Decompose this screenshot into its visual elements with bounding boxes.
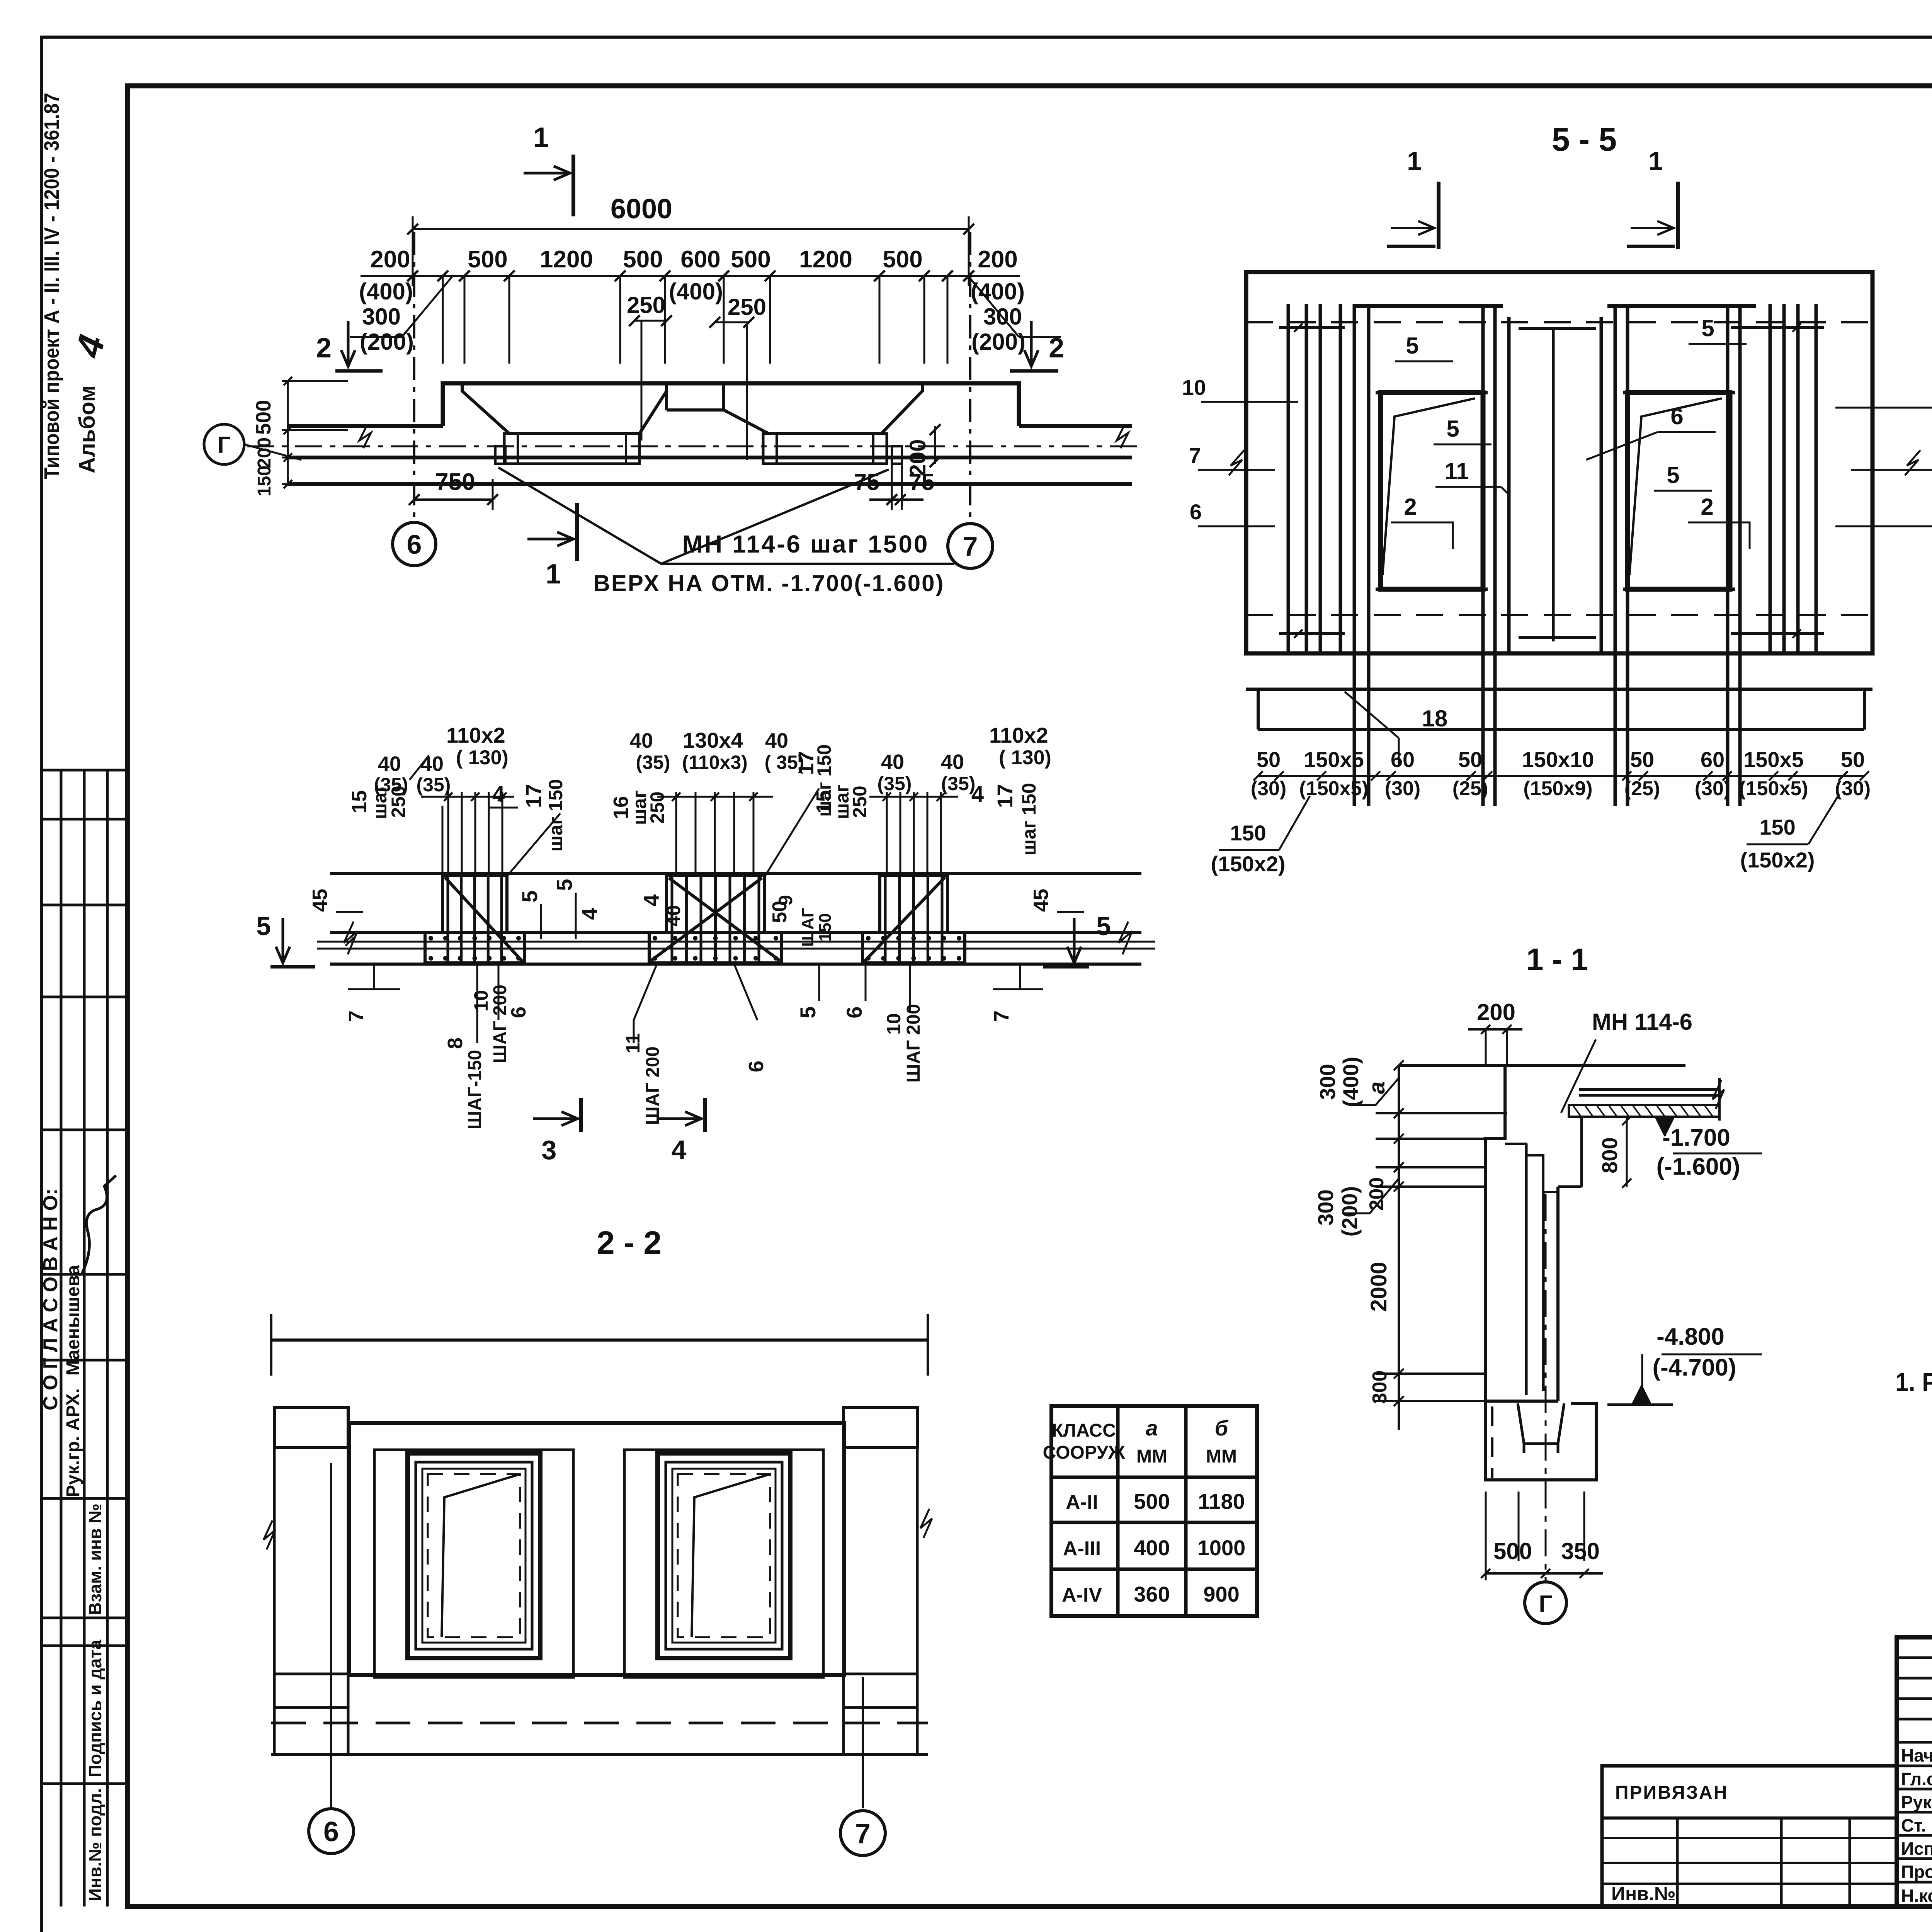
svg-text:КЛАСС: КЛАСС bbox=[1052, 1420, 1116, 1441]
svg-text:Рук.гр. АРХ.: Рук.гр. АРХ. bbox=[63, 1388, 83, 1497]
plan anchor MN left bbox=[495, 446, 505, 464]
svg-text:60: 60 bbox=[1701, 747, 1725, 772]
svg-text:18: 18 bbox=[1422, 706, 1448, 731]
svg-text:150: 150 bbox=[254, 466, 275, 497]
elev break marks bbox=[264, 1520, 275, 1549]
plan capital 1 bbox=[462, 383, 667, 434]
s22 section mark 5 right bbox=[1073, 918, 1076, 963]
svg-text:150: 150 bbox=[816, 913, 835, 941]
svg-text:40: 40 bbox=[378, 752, 401, 776]
svg-text:4: 4 bbox=[672, 1135, 687, 1165]
svg-text:1: 1 bbox=[533, 122, 549, 153]
svg-text:(150х2): (150х2) bbox=[1211, 852, 1285, 876]
svg-text:50: 50 bbox=[1630, 747, 1654, 772]
s55 window2 top bar bbox=[1623, 391, 1735, 395]
elev axis circle 7 bbox=[840, 1811, 885, 1855]
svg-text:250: 250 bbox=[728, 294, 766, 320]
svg-text:1: 1 bbox=[1407, 146, 1422, 176]
svg-text:50: 50 bbox=[769, 901, 791, 923]
svg-text:1000: 1000 bbox=[1197, 1536, 1246, 1560]
svg-text:ММ: ММ bbox=[1136, 1446, 1167, 1467]
svg-text:2: 2 bbox=[316, 333, 332, 364]
svg-text:4: 4 bbox=[577, 908, 602, 920]
svg-text:110х2: 110х2 bbox=[446, 723, 505, 747]
svg-text:250: 250 bbox=[646, 791, 668, 823]
svg-text:5: 5 bbox=[552, 879, 577, 891]
svg-text:6000: 6000 bbox=[611, 194, 672, 224]
svg-text:А-II: А-II bbox=[1066, 1491, 1098, 1514]
elev window 1 bbox=[374, 1450, 573, 1677]
s22 leaders below A bbox=[476, 964, 478, 1043]
svg-text:10: 10 bbox=[883, 1013, 905, 1035]
svg-text:500: 500 bbox=[252, 400, 275, 435]
svg-text:(25): (25) bbox=[1624, 777, 1660, 800]
svg-text:ВЕРХ НА ОТМ. -1.700(-1.600): ВЕРХ НА ОТМ. -1.700(-1.600) bbox=[594, 570, 945, 596]
elev right column bbox=[844, 1407, 917, 1447]
s22 upper extension lines B bbox=[675, 792, 677, 876]
s55 lintel bars bbox=[1354, 304, 1503, 308]
s22 break right bbox=[1119, 922, 1132, 954]
svg-text:(-4.700): (-4.700) bbox=[1652, 1354, 1736, 1381]
svg-text:5: 5 bbox=[1096, 912, 1111, 941]
plan axis circle 6 bbox=[393, 522, 436, 566]
svg-text:3: 3 bbox=[542, 1135, 557, 1165]
s22 centre lines bbox=[317, 941, 1155, 943]
svg-text:17: 17 bbox=[521, 784, 546, 808]
svg-text:5: 5 bbox=[256, 912, 271, 941]
s55 dashed slab lines bbox=[1246, 321, 1872, 323]
svg-text:(35): (35) bbox=[417, 774, 451, 796]
s22 label 7 right bbox=[1019, 964, 1021, 989]
s55 callout 6 right bbox=[1835, 407, 1932, 409]
s55 callout 6 left bbox=[1198, 526, 1275, 527]
svg-text:А-III: А-III bbox=[1063, 1537, 1101, 1560]
plan extension lines bbox=[442, 276, 444, 364]
svg-text:6: 6 bbox=[745, 1061, 768, 1072]
s11 footing bbox=[1486, 1401, 1596, 1480]
svg-text:150: 150 bbox=[1759, 815, 1795, 839]
svg-text:Типовой проект А - II. III.: Типовой проект А - II. III. IV - 1200 - … bbox=[40, 93, 63, 479]
svg-text:1180: 1180 bbox=[1198, 1489, 1245, 1514]
svg-text:7: 7 bbox=[963, 531, 978, 561]
s55 callout 18 bbox=[1345, 692, 1399, 738]
svg-text:(-1.600): (-1.600) bbox=[1656, 1153, 1740, 1180]
svg-text:150х10: 150х10 bbox=[1522, 747, 1594, 772]
s55 window 2 void bbox=[1628, 393, 1730, 589]
svg-text:40: 40 bbox=[941, 750, 964, 774]
s11 axis circle Г bbox=[1525, 1582, 1566, 1624]
svg-text:150: 150 bbox=[1230, 821, 1266, 845]
svg-text:(30): (30) bbox=[1835, 777, 1871, 800]
svg-text:6: 6 bbox=[507, 1007, 530, 1018]
s22 label 7 left bbox=[373, 964, 375, 989]
s55 verticals right of w2 bbox=[1726, 304, 1730, 806]
svg-text:5: 5 bbox=[517, 890, 542, 902]
svg-text:15: 15 bbox=[348, 790, 371, 813]
plan wall band left bbox=[288, 424, 443, 428]
svg-text:(35): (35) bbox=[941, 773, 976, 794]
elev band under wall bbox=[271, 1753, 928, 1756]
svg-text:Провер.: Провер. bbox=[1901, 1862, 1932, 1882]
svg-text:2: 2 bbox=[1701, 494, 1713, 520]
s22 labels above C bbox=[886, 792, 888, 876]
svg-text:(150х9): (150х9) bbox=[1523, 777, 1592, 800]
s55 vertical centre cluster bbox=[1507, 317, 1511, 653]
elev axis circle 6 bbox=[309, 1809, 354, 1854]
plan wall band right bbox=[1019, 424, 1132, 428]
s22 break left bbox=[344, 922, 357, 954]
s55 bottom dim line bbox=[1258, 775, 1864, 777]
s55 verticals window2 sides bbox=[1614, 304, 1617, 806]
svg-text:300: 300 bbox=[1369, 1371, 1391, 1404]
svg-text:500: 500 bbox=[1134, 1489, 1170, 1514]
svg-text:40: 40 bbox=[630, 729, 653, 752]
svg-text:300: 300 bbox=[1315, 1064, 1340, 1100]
svg-text:6: 6 bbox=[1190, 500, 1202, 524]
svg-text:10: 10 bbox=[470, 990, 492, 1012]
s55 window1 bottom bar bbox=[1376, 588, 1488, 591]
s22 upper extension lines A bbox=[447, 792, 449, 876]
plan dim 6000 bbox=[413, 228, 969, 230]
svg-text:45: 45 bbox=[1029, 889, 1053, 912]
svg-text:500: 500 bbox=[731, 246, 770, 273]
svg-text:5: 5 bbox=[1667, 462, 1679, 488]
plan section-mark 1 bottom bbox=[575, 503, 579, 561]
svg-text:500: 500 bbox=[468, 246, 507, 273]
s22 leaders below B bbox=[634, 964, 657, 1020]
svg-text:2: 2 bbox=[1049, 333, 1064, 364]
svg-text:7: 7 bbox=[1189, 443, 1201, 468]
svg-text:1: 1 bbox=[1648, 146, 1663, 176]
left strip stamp grid bbox=[60, 770, 63, 1906]
svg-text:Альбом: Альбом bbox=[75, 385, 100, 473]
svg-text:МН 114-6: МН 114-6 bbox=[1592, 1009, 1692, 1035]
svg-text:Взам. инв №: Взам. инв № bbox=[85, 1503, 105, 1615]
elev axis 6 line bbox=[330, 1463, 332, 1808]
s11 wall top line bbox=[1399, 1064, 1685, 1067]
svg-text:150х5: 150х5 bbox=[1743, 747, 1804, 772]
plan dim 750 bbox=[414, 498, 493, 501]
svg-text:4: 4 bbox=[639, 894, 663, 906]
svg-text:5: 5 bbox=[1406, 333, 1418, 359]
svg-text:800: 800 bbox=[1597, 1137, 1622, 1173]
svg-text:6: 6 bbox=[407, 529, 422, 560]
svg-text:5 - 5: 5 - 5 bbox=[1552, 121, 1617, 158]
s55 callout 7 left bbox=[1198, 469, 1275, 471]
s55 window2 bottom bar bbox=[1623, 588, 1735, 591]
svg-text:5: 5 bbox=[1701, 315, 1714, 341]
svg-text:5: 5 bbox=[796, 1006, 820, 1018]
svg-text:Гл.спец.: Гл.спец. bbox=[1901, 1769, 1932, 1789]
s55 vertical rebar left cluster bbox=[1287, 304, 1290, 653]
svg-text:1200: 1200 bbox=[799, 246, 852, 273]
svg-text:6: 6 bbox=[842, 1006, 866, 1018]
titleblock outer bbox=[1897, 1637, 1932, 1906]
svg-text:17: 17 bbox=[993, 784, 1017, 808]
s55 bottom ties bbox=[1279, 632, 1345, 635]
svg-text:ШАГ-150: ШАГ-150 bbox=[465, 1050, 485, 1129]
s22 pilaster group B bbox=[667, 876, 764, 933]
svg-text:400: 400 bbox=[1134, 1536, 1170, 1560]
elev top line bbox=[271, 1338, 928, 1342]
plan pilaster 2 footprint bbox=[763, 434, 887, 464]
svg-text:2: 2 bbox=[1404, 494, 1417, 520]
s55 section marks 1 top bbox=[1437, 182, 1440, 249]
svg-text:ШАГ 200: ШАГ 200 bbox=[643, 1046, 663, 1125]
svg-text:250: 250 bbox=[627, 292, 665, 318]
svg-text:ММ: ММ bbox=[1206, 1446, 1237, 1467]
svg-text:7: 7 bbox=[990, 1010, 1013, 1022]
s11 wall body bbox=[1486, 1065, 1505, 1401]
svg-text:(30): (30) bbox=[1251, 777, 1286, 800]
svg-text:10: 10 bbox=[1182, 375, 1206, 400]
left strip divider bbox=[125, 86, 130, 1906]
svg-text:600: 600 bbox=[680, 246, 720, 273]
s55 foundation lines bbox=[1246, 688, 1872, 691]
svg-text:(400): (400) bbox=[1338, 1057, 1363, 1107]
privyazan table bbox=[1602, 1766, 1897, 1906]
svg-text:(30): (30) bbox=[1385, 777, 1420, 800]
elev axis 7 line bbox=[862, 1677, 864, 1808]
svg-text:Инв.№ подл.: Инв.№ подл. bbox=[85, 1788, 105, 1901]
svg-text:Рук. гр.: Рук. гр. bbox=[1901, 1792, 1932, 1812]
s22 section marks 3 4 below bbox=[579, 1098, 583, 1132]
svg-text:45: 45 bbox=[308, 889, 332, 912]
left strip signature bbox=[81, 1175, 116, 1275]
svg-text:-4.800: -4.800 bbox=[1656, 1323, 1725, 1350]
svg-text:500: 500 bbox=[1493, 1538, 1532, 1564]
svg-text:350: 350 bbox=[1561, 1538, 1600, 1564]
s11 slab right bbox=[1579, 1088, 1719, 1091]
svg-text:50: 50 bbox=[1257, 747, 1281, 772]
svg-text:5: 5 bbox=[1446, 416, 1459, 442]
s22 top edge bbox=[330, 872, 1141, 875]
svg-text:(35): (35) bbox=[878, 773, 912, 794]
svg-text:200: 200 bbox=[978, 246, 1017, 273]
svg-text:200: 200 bbox=[1477, 999, 1515, 1025]
svg-text:(35): (35) bbox=[636, 752, 670, 773]
s55 callout 7 right bbox=[1851, 469, 1932, 471]
svg-text:Подпись и дата: Подпись и дата bbox=[85, 1639, 105, 1777]
titleblock names rows bbox=[1897, 1741, 1932, 1744]
svg-text:40: 40 bbox=[765, 729, 788, 752]
s11 axis line bbox=[1545, 1194, 1547, 1582]
svg-text:200: 200 bbox=[254, 437, 275, 468]
svg-text:750: 750 bbox=[435, 469, 475, 495]
svg-text:2 - 2: 2 - 2 bbox=[597, 1225, 662, 1261]
svg-text:50: 50 bbox=[1458, 747, 1482, 772]
svg-text:360: 360 bbox=[1134, 1582, 1170, 1606]
svg-text:300: 300 bbox=[362, 304, 401, 330]
elev window 2 bbox=[624, 1450, 823, 1677]
svg-text:(25): (25) bbox=[1452, 777, 1488, 800]
svg-text:Г: Г bbox=[218, 432, 231, 458]
plan section-mark 2 left bbox=[347, 321, 350, 366]
svg-text:шаг 150: шаг 150 bbox=[1018, 783, 1040, 855]
svg-text:(150х5): (150х5) bbox=[1739, 777, 1808, 800]
svg-text:Исполн.: Исполн. bbox=[1901, 1838, 1932, 1859]
svg-text:11: 11 bbox=[622, 1033, 644, 1054]
plan centreline bbox=[247, 446, 1144, 447]
s55 callout 12 right bbox=[1835, 526, 1932, 527]
svg-text:130х4: 130х4 bbox=[683, 728, 743, 752]
plan pilaster 1 footprint bbox=[504, 434, 639, 464]
svg-text:1. РАЗМЕРЫ И ОТМЕТКИ В СКО: 1. РАЗМЕРЫ И ОТМЕТКИ В СКОБКАХ ДАНЫ ДЛЯ … bbox=[1895, 1367, 1932, 1397]
svg-text:шаг 150: шаг 150 bbox=[545, 779, 566, 852]
svg-text:( 130): ( 130) bbox=[999, 747, 1051, 769]
svg-text:6: 6 bbox=[323, 1816, 339, 1847]
svg-text:6: 6 bbox=[1670, 403, 1683, 429]
svg-text:б: б bbox=[1215, 1416, 1229, 1440]
s22 pilaster group C bbox=[880, 876, 947, 933]
svg-text:Н.контр.: Н.контр. bbox=[1901, 1886, 1932, 1906]
svg-text:11: 11 bbox=[1444, 458, 1469, 484]
s55 top ties bbox=[1279, 326, 1345, 329]
s22 upper dim ticks A bbox=[421, 796, 514, 798]
plan section-mark 1 top bbox=[571, 155, 575, 216]
svg-text:900: 900 bbox=[1203, 1582, 1239, 1606]
svg-text:(400): (400) bbox=[669, 279, 723, 304]
s22 upper dim ticks B bbox=[657, 796, 773, 798]
svg-text:40: 40 bbox=[663, 905, 684, 927]
svg-text:200: 200 bbox=[905, 439, 930, 477]
svg-text:Инв.№: Инв.№ bbox=[1611, 1883, 1676, 1905]
svg-text:200: 200 bbox=[370, 246, 410, 273]
plan anchor MN right bbox=[892, 446, 902, 464]
svg-text:(400): (400) bbox=[971, 279, 1025, 304]
svg-text:a: a bbox=[1146, 1416, 1158, 1440]
s55 verticals window1 sides bbox=[1481, 304, 1485, 806]
svg-text:4: 4 bbox=[492, 782, 505, 807]
svg-text:Нач. отд: Нач. отд bbox=[1901, 1745, 1932, 1765]
svg-text:(200): (200) bbox=[971, 329, 1026, 355]
svg-text:Ст. инж.: Ст. инж. bbox=[1901, 1815, 1932, 1835]
svg-text:40: 40 bbox=[420, 752, 444, 776]
plan dim chain line bbox=[361, 275, 1020, 277]
svg-text:1: 1 bbox=[546, 559, 561, 590]
svg-text:С О Г Л А С О В А Н О:: С О Г Л А С О В А Н О: bbox=[39, 1189, 62, 1410]
elev dashed line bbox=[271, 1722, 928, 1725]
svg-text:( 130): ( 130) bbox=[456, 747, 509, 769]
plan leader MN 114-6 bbox=[498, 468, 661, 564]
svg-text:7: 7 bbox=[345, 1010, 368, 1022]
plan break marks bbox=[359, 425, 371, 448]
s55 window1 top bar bbox=[1376, 391, 1488, 395]
svg-text:150х5: 150х5 bbox=[1304, 747, 1364, 772]
svg-text:ШАГ 200: ШАГ 200 bbox=[490, 985, 510, 1063]
svg-text:(150х2): (150х2) bbox=[1740, 848, 1815, 872]
elev main wall bbox=[349, 1423, 844, 1675]
svg-text:1 - 1: 1 - 1 bbox=[1526, 942, 1588, 976]
svg-text:1200: 1200 bbox=[540, 246, 593, 273]
plan capital mid notch bbox=[665, 383, 668, 410]
plan axis circle 7 bbox=[948, 524, 993, 568]
s55 vertical rebar left pair bbox=[1353, 304, 1356, 806]
svg-text:2000: 2000 bbox=[1366, 1262, 1391, 1311]
svg-text:Маенышева: Маенышева bbox=[63, 1265, 83, 1376]
svg-text:(30): (30) bbox=[1695, 777, 1730, 800]
svg-text:250: 250 bbox=[849, 786, 871, 818]
svg-text:500: 500 bbox=[623, 246, 663, 273]
svg-text:ПРИВЯЗАН: ПРИВЯЗАН bbox=[1615, 1782, 1728, 1803]
svg-text:50: 50 bbox=[1841, 747, 1865, 772]
svg-text:ШАГ: ШАГ bbox=[798, 908, 817, 947]
s22 section mark 5 left bbox=[282, 918, 284, 963]
s55 window 1 void bbox=[1381, 393, 1483, 589]
class table grid bbox=[1051, 1406, 1257, 1616]
svg-text:7: 7 bbox=[855, 1818, 871, 1849]
svg-text:60: 60 bbox=[1391, 747, 1415, 772]
plan section-mark 2 right bbox=[1030, 321, 1033, 366]
plan capital 2 bbox=[724, 383, 922, 434]
svg-text:8: 8 bbox=[444, 1037, 467, 1049]
svg-text:СООРУЖ: СООРУЖ bbox=[1043, 1442, 1125, 1463]
svg-text:МН 114-6 шаг 1500: МН 114-6 шаг 1500 bbox=[682, 530, 929, 558]
plan axis 6 vertical bbox=[413, 232, 415, 522]
svg-text:Г: Г bbox=[1539, 1591, 1552, 1617]
svg-text:ШАГ 200: ШАГ 200 bbox=[903, 1004, 924, 1083]
plan outline top bbox=[443, 383, 1019, 426]
s11 left dim chain bbox=[1398, 1065, 1400, 1430]
svg-text:-1.700: -1.700 bbox=[1662, 1124, 1730, 1151]
svg-text:500: 500 bbox=[883, 246, 922, 273]
s55 vertical rebar right cluster bbox=[1769, 304, 1772, 653]
elev left column bbox=[274, 1407, 348, 1447]
svg-text:(110х3): (110х3) bbox=[682, 752, 748, 773]
svg-text:(400): (400) bbox=[359, 279, 413, 304]
s22 bottom edges bbox=[330, 931, 1141, 934]
svg-text:А-IV: А-IV bbox=[1062, 1584, 1102, 1606]
plan axis 7 vertical bbox=[969, 232, 971, 522]
svg-text:(200): (200) bbox=[1337, 1186, 1362, 1237]
s55 outer rect bbox=[1246, 272, 1872, 653]
plan wall band bottom bbox=[288, 482, 1132, 486]
svg-text:300: 300 bbox=[1313, 1189, 1338, 1225]
svg-text:110х2: 110х2 bbox=[989, 723, 1048, 747]
svg-text:(35): (35) bbox=[374, 774, 408, 796]
s55 callout 10 left bbox=[1201, 401, 1298, 403]
s22 pilaster group A bbox=[442, 876, 507, 933]
svg-text:40: 40 bbox=[881, 750, 904, 774]
svg-text:4: 4 bbox=[971, 782, 984, 807]
s11 mark -1.700 bbox=[1656, 1117, 1675, 1136]
